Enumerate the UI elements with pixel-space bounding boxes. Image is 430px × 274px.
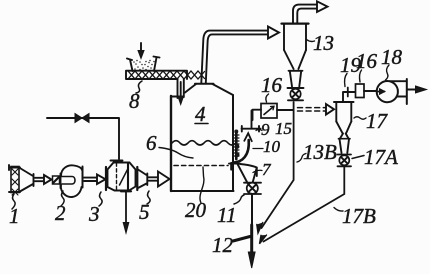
wire 16 to junction xyxy=(277,109,294,111)
wire arrow 3 to vessel xyxy=(149,172,170,187)
product outlet cone xyxy=(229,164,257,183)
svg-text:1: 1 xyxy=(9,204,20,228)
product line down xyxy=(248,195,255,269)
label 17A xyxy=(352,145,398,169)
svg-text:10: 10 xyxy=(263,137,281,156)
svg-text:6: 6 xyxy=(146,131,157,155)
label 7 xyxy=(253,160,272,179)
svg-text:4: 4 xyxy=(195,102,206,126)
scrubber box 16 xyxy=(261,104,277,119)
hopper 1 xyxy=(9,165,34,195)
dashed holdup line xyxy=(174,165,228,167)
dryer vessel 4 xyxy=(171,84,234,191)
wire arrow 2 to 3 xyxy=(84,175,106,185)
label 9 xyxy=(256,120,270,139)
liquid level wavy line xyxy=(172,141,235,145)
circulation arrow xyxy=(234,133,252,162)
svg-text:12: 12 xyxy=(212,233,234,257)
wire 16 to injector xyxy=(253,110,262,120)
label 19 xyxy=(340,53,362,87)
blower 18 xyxy=(377,79,407,104)
cyclone 13 xyxy=(282,24,309,101)
label 13 xyxy=(307,31,335,55)
wire arrow 1 to 2 xyxy=(35,175,52,184)
svg-text:17B: 17B xyxy=(342,204,376,228)
dashed gas line to cyclone 17 xyxy=(298,104,335,115)
feed valve line xyxy=(47,114,119,160)
label 3 xyxy=(88,192,102,226)
svg-text:18: 18 xyxy=(381,45,403,69)
label 16 (right) xyxy=(356,49,378,82)
rotary valve 3 xyxy=(106,161,147,191)
label 8 xyxy=(129,81,142,113)
label 1 xyxy=(9,194,20,228)
label 20 xyxy=(185,167,207,222)
svg-text:17: 17 xyxy=(366,109,389,133)
svg-text:20: 20 xyxy=(185,198,207,222)
label 4 xyxy=(195,102,208,126)
solids discharge arrow below 3 xyxy=(121,191,131,233)
svg-text:17A: 17A xyxy=(364,145,398,169)
label 18 xyxy=(381,45,403,80)
filter box 16 (right) xyxy=(356,84,365,98)
svg-text:3: 3 xyxy=(88,202,100,226)
steam pipe 9 xyxy=(242,111,261,132)
label 5 xyxy=(139,191,150,224)
label 12 xyxy=(212,233,250,257)
line 13B xyxy=(257,102,294,233)
label 6 xyxy=(146,131,193,158)
label 2 xyxy=(55,191,66,225)
svg-text:16: 16 xyxy=(356,49,378,73)
line 17B xyxy=(260,167,345,244)
svg-text:2: 2 xyxy=(55,201,66,225)
feeder 8 xyxy=(126,43,205,105)
svg-text:8: 8 xyxy=(129,89,140,113)
exhaust arrow out xyxy=(407,86,427,93)
label 17 xyxy=(354,109,389,133)
blower 2 xyxy=(53,165,83,197)
cyclone 17 gas outlet xyxy=(343,88,355,102)
label 16 (left) xyxy=(261,73,283,102)
valve 7 xyxy=(244,183,261,194)
svg-text:13B: 13B xyxy=(303,140,337,164)
svg-text:15: 15 xyxy=(275,119,292,138)
label 10 xyxy=(253,137,281,156)
svg-text:16: 16 xyxy=(261,73,283,97)
svg-text:11: 11 xyxy=(217,203,236,227)
cyclone 13 exhaust xyxy=(293,1,328,22)
wire 16 to blower 18 xyxy=(364,90,377,92)
label 13B xyxy=(297,140,337,164)
svg-text:5: 5 xyxy=(139,200,150,224)
label 17B xyxy=(334,204,376,228)
injector 10 xyxy=(234,130,240,160)
svg-text:13: 13 xyxy=(313,31,334,55)
cyclone 17 xyxy=(334,102,354,166)
label 11 xyxy=(217,195,244,227)
vapour riser to cyclone xyxy=(201,27,279,84)
